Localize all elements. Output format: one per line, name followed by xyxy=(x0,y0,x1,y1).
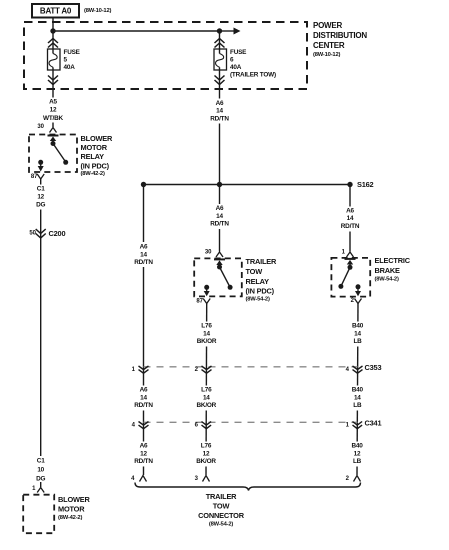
fork at trailer tow relay pin 30 xyxy=(216,252,223,257)
blower motor relay box xyxy=(29,135,77,173)
connector chevrons above fuse 5 xyxy=(48,39,58,48)
in-line connector C341 dashed line xyxy=(144,421,358,423)
svg-text:L76: L76 xyxy=(201,323,212,330)
svg-text:WT/BK: WT/BK xyxy=(43,115,64,122)
svg-text:A6: A6 xyxy=(140,387,148,394)
in-line connector C353 dashed line xyxy=(144,366,358,368)
electric brake label xyxy=(375,256,411,283)
wire label B40 14 LB (upper) xyxy=(346,322,369,347)
svg-text:TOW: TOW xyxy=(213,501,230,510)
svg-text:MOTOR: MOTOR xyxy=(81,143,108,152)
connector chevrons below fuse 6 xyxy=(215,76,225,85)
electric brake box xyxy=(331,258,370,297)
C341 chevrons on right wire xyxy=(353,422,363,429)
trailer tow relay pin 87 exit arrow xyxy=(204,287,210,296)
in-line connector C200 chevrons xyxy=(36,229,46,238)
fork below trailer tow relay pin 87 xyxy=(203,299,210,304)
svg-text:TOW: TOW xyxy=(246,267,263,276)
wire label A6 14 RD/TN (right) xyxy=(339,207,361,232)
wire label B40 12 LB (lower) xyxy=(346,442,369,467)
blower motor label xyxy=(58,495,91,521)
svg-text:A6: A6 xyxy=(346,208,354,215)
blower motor relay label xyxy=(81,134,114,177)
svg-text:14: 14 xyxy=(347,215,354,222)
svg-text:RD/TN: RD/TN xyxy=(210,115,229,122)
svg-text:B40: B40 xyxy=(351,443,363,450)
svg-text:40A: 40A xyxy=(64,64,76,71)
arrow at bus end xyxy=(220,28,241,35)
wire label A6 14 RD/TN (below PDC) xyxy=(209,99,231,124)
trailer tow relay pin 30 terminal bar and arrow xyxy=(214,259,225,267)
svg-text:CENTER: CENTER xyxy=(313,41,345,50)
svg-text:(8W-10-12): (8W-10-12) xyxy=(313,52,340,58)
blower motor box xyxy=(23,495,54,534)
svg-text:LB: LB xyxy=(353,458,362,465)
svg-text:RD/TN: RD/TN xyxy=(134,402,153,409)
svg-text:FUSE: FUSE xyxy=(64,49,81,56)
svg-text:S162: S162 xyxy=(357,180,374,189)
junction dot at fuse 5 xyxy=(50,28,55,33)
svg-text:14: 14 xyxy=(354,330,361,337)
brace under trailer tow connector xyxy=(135,483,361,491)
electric brake pin 1 terminal bar and arrow xyxy=(345,259,356,267)
trailer tow relay switch xyxy=(204,265,232,290)
svg-text:POWER: POWER xyxy=(313,21,342,30)
svg-text:LB: LB xyxy=(353,402,362,409)
svg-text:CONNECTOR: CONNECTOR xyxy=(198,511,245,520)
wire: S162 down to electric brake xyxy=(349,185,351,252)
svg-text:14: 14 xyxy=(203,330,210,337)
svg-text:C200: C200 xyxy=(49,229,66,238)
wire label A6 14 RD/TN (left, upper) xyxy=(133,242,155,267)
BATT A0 box xyxy=(32,4,79,18)
wire label A6 14 RD/TN (middle) xyxy=(209,204,231,229)
svg-text:RELAY: RELAY xyxy=(246,277,270,286)
connector chevrons below fuse 5 xyxy=(48,76,58,85)
svg-text:(8W-54-2): (8W-54-2) xyxy=(375,277,399,283)
svg-text:40A: 40A xyxy=(230,64,242,71)
svg-text:L76: L76 xyxy=(201,387,212,394)
svg-text:C1: C1 xyxy=(37,458,45,465)
wire: BATT A0 down to bus xyxy=(52,18,54,32)
female terminal fork at relay pin 30 xyxy=(50,128,57,133)
fuse F5 label xyxy=(64,49,81,71)
svg-text:BLOWER: BLOWER xyxy=(58,495,91,504)
relay pin 30 terminal bar and arrow xyxy=(48,136,59,144)
svg-text:12: 12 xyxy=(37,194,44,201)
svg-text:BK/OR: BK/OR xyxy=(197,338,217,345)
svg-text:12: 12 xyxy=(50,107,57,114)
svg-text:B40: B40 xyxy=(352,387,364,394)
splice bus S162 xyxy=(144,184,351,186)
svg-text:C353: C353 xyxy=(365,363,382,372)
svg-text:50: 50 xyxy=(29,231,36,237)
wire: fuse 5 branch xyxy=(52,31,54,127)
svg-text:14: 14 xyxy=(354,394,361,401)
svg-text:BLOWER: BLOWER xyxy=(81,134,114,143)
fork below relay pin 87 xyxy=(37,174,44,179)
svg-text:(TRAILER TOW): (TRAILER TOW) xyxy=(230,72,276,79)
wire label C1 10 DG xyxy=(31,456,51,483)
splice dot S162 xyxy=(347,182,352,187)
wire: middle branch to trailer tow relay xyxy=(219,185,221,252)
C341 chevrons on left wire xyxy=(139,422,149,429)
svg-text:87: 87 xyxy=(196,299,203,305)
svg-text:(IN PDC): (IN PDC) xyxy=(81,161,110,170)
electric brake switch xyxy=(338,265,360,290)
wire label B40 14 LB (between connectors) xyxy=(346,386,369,411)
svg-text:30: 30 xyxy=(37,124,44,130)
svg-text:RD/TN: RD/TN xyxy=(341,223,360,230)
svg-text:A6: A6 xyxy=(216,100,224,107)
svg-text:A6: A6 xyxy=(216,205,224,212)
svg-text:TRAILER: TRAILER xyxy=(246,257,277,266)
svg-text:30: 30 xyxy=(205,250,212,256)
svg-text:MOTOR: MOTOR xyxy=(58,505,85,514)
svg-text:ELECTRIC: ELECTRIC xyxy=(375,256,411,265)
svg-text:RD/TN: RD/TN xyxy=(134,259,153,266)
fork at connector pin 3 xyxy=(203,476,210,482)
svg-text:BRAKE: BRAKE xyxy=(375,266,401,275)
svg-text:RD/TN: RD/TN xyxy=(134,458,153,465)
wire: electric brake down to connector xyxy=(357,304,358,476)
trailer tow relay label xyxy=(246,257,277,303)
svg-text:A6: A6 xyxy=(140,443,148,450)
junction dot at fuse 6 xyxy=(217,28,222,33)
fork at blower motor pin 1 xyxy=(37,488,44,493)
connector chevrons above fuse 6 xyxy=(215,39,225,48)
fuse F6 label xyxy=(230,49,276,79)
C353 chevrons on middle wire xyxy=(202,366,212,373)
electric brake pin 2 exit arrow xyxy=(355,287,361,297)
top bus wire xyxy=(53,30,220,32)
svg-text:12: 12 xyxy=(354,450,361,457)
svg-text:DISTRIBUTION: DISTRIBUTION xyxy=(313,31,367,40)
junction dot middle xyxy=(217,182,222,187)
power distribution center label xyxy=(313,21,367,58)
wire label L76 14 BK/OR (between connectors) xyxy=(195,386,218,411)
wire label C1 12 DG xyxy=(31,185,51,210)
svg-text:12: 12 xyxy=(140,450,147,457)
trailer tow relay box xyxy=(194,258,242,296)
svg-text:(8W-42-2): (8W-42-2) xyxy=(81,171,105,177)
fork below electric brake pin 2 xyxy=(355,299,362,304)
svg-text:BATT A0: BATT A0 xyxy=(40,7,72,16)
fuse F6 xyxy=(214,49,227,70)
fuse F5 xyxy=(48,49,61,70)
svg-text:14: 14 xyxy=(203,394,210,401)
wire label A6 14 RD/TN (between connectors) xyxy=(133,386,155,411)
svg-text:14: 14 xyxy=(140,394,147,401)
svg-text:BK/OR: BK/OR xyxy=(197,402,217,409)
svg-text:L76: L76 xyxy=(201,443,212,450)
svg-text:C341: C341 xyxy=(365,418,382,427)
svg-text:14: 14 xyxy=(216,213,223,220)
svg-text:RD/TN: RD/TN xyxy=(210,221,229,228)
svg-text:(8W-54-2): (8W-54-2) xyxy=(209,522,233,528)
svg-text:RELAY: RELAY xyxy=(81,152,105,161)
fork at connector pin 4 xyxy=(140,476,147,482)
relay switch: pivot, arm, contacts xyxy=(38,141,68,165)
svg-text:(8W-42-2): (8W-42-2) xyxy=(58,515,82,521)
C341 chevrons on middle wire xyxy=(202,422,212,429)
svg-text:14: 14 xyxy=(140,251,147,258)
svg-text:10: 10 xyxy=(37,467,44,474)
trailer tow connector label xyxy=(198,492,245,528)
svg-text:(8W-54-2): (8W-54-2) xyxy=(246,297,270,303)
wire: fuse 6 branch down xyxy=(219,31,221,185)
svg-text:(8W-10-12): (8W-10-12) xyxy=(84,8,111,14)
wire label L76 12 BK/OR (lower) xyxy=(195,442,218,467)
svg-text:LB: LB xyxy=(353,338,362,345)
C353 chevrons on left wire xyxy=(139,366,149,373)
wire: trailer tow relay 87 down to connector xyxy=(205,304,208,476)
fork at connector pin 2 xyxy=(354,476,361,482)
fork at electric brake pin 1 xyxy=(347,252,354,257)
svg-text:(IN PDC): (IN PDC) xyxy=(246,287,275,296)
C353 chevrons on right wire xyxy=(353,366,363,373)
svg-text:A5: A5 xyxy=(49,99,57,106)
svg-text:DG: DG xyxy=(36,202,45,209)
svg-text:BK/OR: BK/OR xyxy=(196,458,216,465)
svg-text:DG: DG xyxy=(36,476,45,483)
svg-text:14: 14 xyxy=(216,108,223,115)
wire: left branch down from bus xyxy=(143,185,145,476)
junction dot left xyxy=(141,182,146,187)
svg-text:FUSE: FUSE xyxy=(230,49,247,56)
svg-text:TRAILER: TRAILER xyxy=(206,492,237,501)
wire: relay 87 down to blower motor xyxy=(40,179,42,487)
svg-text:C1: C1 xyxy=(37,186,45,193)
svg-text:A6: A6 xyxy=(140,244,148,251)
svg-text:B40: B40 xyxy=(352,323,364,330)
relay pin 87 exit arrow xyxy=(38,162,44,171)
wire label A6 12 RD/TN (lower) xyxy=(133,442,155,467)
svg-text:12: 12 xyxy=(203,450,210,457)
wire label A5 12 WT/BK xyxy=(42,98,64,123)
power distribution center box xyxy=(24,22,307,89)
wire label L76 14 BK/OR (upper) xyxy=(195,322,218,347)
